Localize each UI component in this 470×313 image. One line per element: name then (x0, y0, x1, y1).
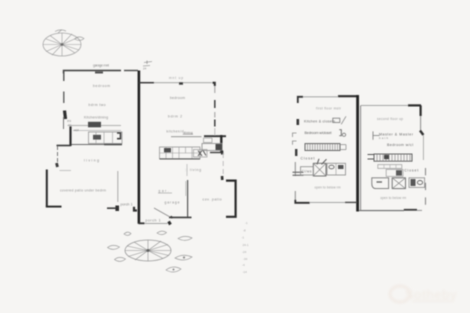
stair extension lines (340, 145, 346, 150)
garage right wall (187, 180, 189, 217)
wall x57 (57, 146, 59, 162)
diagonal end dot (171, 217, 173, 218)
svg-text:second floor up: second floor up (377, 117, 403, 121)
bottom wall end blob (169, 222, 171, 225)
bush near top tree (75, 37, 85, 41)
bottom wall light middle (145, 222, 168, 224)
appliance X box (194, 150, 208, 158)
island dark box unit A (88, 122, 101, 128)
svg-text:bdrm two: bdrm two (89, 103, 106, 107)
bush 6 (175, 255, 192, 260)
unit C left wall dash a (294, 162, 296, 176)
door tick on unit A top wall (95, 72, 103, 74)
patio L wall bottom (46, 206, 62, 208)
unit C bottom-left corner (295, 200, 309, 203)
counter line 2 unit A (73, 130, 121, 132)
svg-text:covered patio under bedrm: covered patio under bedrm (60, 188, 106, 192)
unit D right wall dashes (425, 168, 427, 205)
dark range mark unit B (164, 148, 171, 152)
unit D right wall mid (422, 135, 424, 160)
svg-text:-1: -1 (245, 221, 248, 225)
unit A left wall lower (63, 117, 65, 129)
unit D bottom wall (359, 210, 404, 212)
unit C left wall blob (296, 119, 299, 125)
lower right wall dashes (222, 153, 224, 176)
unit B top wall faint (154, 82, 212, 84)
unit B cabinet row (160, 147, 201, 159)
bush 7 (166, 267, 181, 272)
svg-text:open to below rm: open to below rm (380, 196, 406, 200)
porch post line (117, 171, 119, 202)
fridge dark mark unit A (117, 133, 121, 139)
big bottom tree outer (125, 240, 171, 261)
svg-text:Closet: Closet (301, 157, 315, 161)
unit D mid fixtures (386, 169, 403, 176)
jog wall y136 (204, 135, 226, 137)
svg-text:living: living (84, 159, 99, 163)
unit C stair-left wall blob (295, 149, 297, 156)
unit C top wall faint part (303, 96, 338, 98)
unit B counter line (171, 136, 202, 138)
unit D stair dark blob (384, 155, 389, 159)
unit B right wall dash 2 (214, 100, 216, 108)
unit A top wall right segment (124, 70, 138, 72)
faint line y170 (60, 170, 72, 172)
legend marks column (242, 221, 249, 274)
svg-text:-24: -24 (242, 250, 247, 254)
svg-text:kitchen/d: kitchen/d (167, 129, 184, 133)
svg-text:-14: -14 (243, 270, 248, 274)
notch wall y152.5 (210, 152, 222, 154)
bay bracket marks outside left wall (293, 133, 297, 145)
unit D right corner blob (420, 131, 423, 136)
plan group (43, 30, 426, 275)
svg-text:30: 30 (68, 123, 72, 127)
unit B top wall dark segment (139, 82, 154, 84)
unit C bath fixtures (327, 163, 346, 175)
svg-text:Sotheby: Sotheby (405, 287, 458, 302)
blob at patio top (57, 163, 58, 167)
svg-text:garage: garage (165, 200, 180, 204)
unit D vanity (372, 178, 389, 189)
big tree trunk dot (147, 249, 150, 252)
diagonal garage line (154, 208, 170, 217)
stove dark mark unit A (93, 135, 101, 140)
svg-text:w|d: w|d (74, 128, 79, 132)
jog wall (57, 145, 72, 147)
bush 4 (108, 245, 120, 249)
cabinet row unit A (89, 132, 123, 144)
unit D stair left entry (368, 155, 375, 160)
bush 1 (124, 232, 131, 235)
unit C left window ticks (293, 172, 304, 175)
bottom wall right of party wall dark (139, 222, 145, 224)
unit D stairs (374, 154, 412, 161)
svg-text:mnt up: mnt up (169, 76, 183, 80)
unit C door marks (317, 159, 327, 165)
porch bottom wall unit A (107, 207, 116, 209)
unit A left wall window dash 1 (63, 71, 65, 82)
garage bottom wall (169, 216, 192, 218)
unit A top wall (64, 71, 122, 74)
svg-text:Bedroom w/cl: Bedroom w/cl (387, 143, 413, 147)
unit B top wall door dot (179, 82, 183, 84)
faint upper line x187 (186, 164, 188, 176)
svg-text:-1: -1 (242, 236, 245, 240)
unit D right wall (420, 116, 422, 131)
tree top-left tip marks (55, 30, 66, 34)
garage small label underline (158, 192, 172, 194)
watermark (390, 286, 458, 302)
small boxes right of label (333, 118, 340, 122)
w d appliance box unit B (202, 144, 222, 151)
unit D top wall faint (361, 104, 408, 106)
unit B cabinets bottom line (160, 158, 201, 160)
svg-text:first floor mstr: first floor mstr (316, 106, 342, 110)
unit A left wall window dash 2 (63, 92, 65, 104)
unit C bottom wall (310, 201, 356, 203)
party wall right building (356, 95, 359, 212)
porch post blob near party wall (134, 207, 137, 211)
svg-text:gar.: gar. (159, 189, 169, 193)
unit C closet2 (301, 167, 314, 175)
svg-text:porch 1: porch 1 (121, 203, 133, 207)
counter line unit A (68, 125, 122, 127)
tree top-left outer (43, 33, 81, 56)
svg-text:Cl/ws: Cl/ws (302, 170, 312, 174)
party wall left building (138, 71, 141, 224)
unit D boxes row (378, 165, 402, 169)
svg-text:Kitchen/dining: Kitchen/dining (84, 116, 108, 120)
garage door frame line (185, 181, 187, 196)
bush 5 (115, 257, 126, 261)
unit C top wall dark part (338, 95, 358, 97)
svg-text:Closet: Closet (404, 169, 418, 173)
svg-text:bedroom: bedroom (93, 84, 110, 88)
unit D door marks left (373, 131, 380, 139)
unit D right fixtures (409, 178, 425, 188)
corner blob (221, 151, 224, 155)
svg-text::: living: :: living (185, 168, 201, 172)
unit D top wall dark (408, 104, 421, 106)
svg-text:open to below rm: open to below rm (315, 185, 341, 189)
small box above appliances (204, 138, 213, 143)
svg-text:cov. patio: cov. patio (203, 197, 222, 201)
post blob right (221, 176, 224, 180)
unit C stairs (305, 144, 340, 151)
unit D shower X box (392, 178, 405, 189)
patio L wall vertical (46, 170, 48, 207)
svg-text:porch 1: porch 1 (146, 218, 161, 222)
svg-text:Bedroom w/closet: Bedroom w/closet (305, 131, 332, 135)
svg-text:bath: bath (379, 136, 388, 140)
svg-text:garage mnt: garage mnt (93, 64, 109, 68)
unit C bottom wall dark right (345, 201, 357, 203)
bush 2 (157, 231, 167, 235)
unit D bottom wall tail (417, 209, 422, 211)
svg-text:Kitchen & closets: Kitchen & closets (304, 119, 335, 123)
unit A left wall corner blob (65, 111, 66, 120)
svg-text:bdrm 2: bdrm 2 (168, 114, 182, 118)
unit D bottom wall dark seg (404, 209, 417, 211)
dimension symbol near party wall top (143, 61, 152, 67)
unit B right wall faint lower (214, 112, 216, 118)
svg-text:24: 24 (143, 67, 147, 71)
unit D left wall (360, 105, 362, 210)
unit C shower X box (313, 163, 326, 176)
unit B right wall dash 1 (214, 86, 216, 93)
left wall thick by kitchen (69, 126, 71, 146)
tree top-left spokes (43, 33, 81, 56)
door swing unit C (341, 116, 346, 124)
svg-text:bedroom: bedroom (170, 96, 185, 100)
bush 3 (178, 236, 192, 240)
unit B top right corner (213, 83, 215, 86)
unit B right wall thick (220, 135, 222, 153)
unit C left wall dash b (294, 191, 296, 200)
patio right bracket (226, 181, 236, 217)
svg-text:-8: -8 (243, 229, 246, 233)
svg-text:24-1: 24-1 (243, 243, 249, 247)
door bracket (339, 130, 341, 136)
tree top-left trunk dot (61, 43, 64, 46)
unit C top-left corner (298, 97, 303, 103)
svg-text:-34: -34 (243, 257, 248, 261)
kitchen bottom line unit A (71, 144, 104, 146)
svg-text:-4: -4 (242, 263, 245, 267)
big bottom tree spokes (125, 240, 171, 261)
unit D top-right corner (420, 105, 422, 116)
small circle mark (342, 133, 345, 136)
porch post blob (115, 206, 119, 212)
